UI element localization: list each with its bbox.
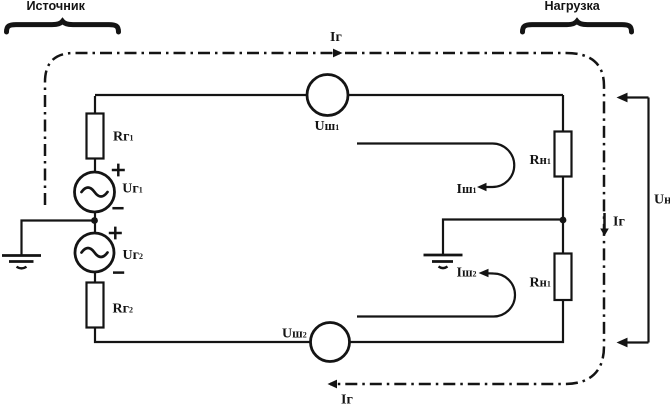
arrow Iг top (right-pointing) — [333, 49, 343, 58]
sine symbol Uг1 — [82, 188, 108, 197]
wire Uг1 to Uг2 through node — [94, 212, 96, 234]
svg-text:Источник: Источник — [27, 0, 86, 13]
source Uг1 — [75, 172, 115, 212]
wire to middle ground — [443, 220, 563, 255]
arrow Iш1 (left-pointing) — [477, 183, 487, 191]
resistor Rн1 upper — [555, 132, 572, 177]
minus sign of Uг2 — [113, 271, 124, 274]
brace under Нагрузка — [523, 21, 632, 32]
wire Iш2 loop indicator — [357, 273, 515, 316]
wire top right — [348, 95, 563, 132]
wire Rн1 upper to node — [562, 177, 564, 254]
resistor Rг1 — [87, 114, 104, 159]
sine symbol Uг2 — [82, 248, 108, 257]
plus sign of Uг1 — [112, 164, 125, 177]
voltmeter Uш2 — [311, 323, 350, 362]
svg-text:Iг: Iг — [341, 393, 353, 404]
wire Iш1 loop indicator — [357, 144, 514, 188]
minus sign of Uг1 — [112, 207, 123, 210]
arrow Uн top (left-pointing) — [617, 93, 628, 103]
wire bottom left — [94, 341, 311, 343]
svg-text:Uн: Uн — [654, 193, 670, 208]
svg-text:Нагрузка: Нагрузка — [545, 0, 601, 13]
arrow Uн bottom (left-pointing) — [617, 338, 628, 348]
ground left — [2, 256, 41, 269]
node B (junction of load resistors and ground) — [560, 217, 567, 224]
wire top left (node between Rг1 and Uш1) — [95, 95, 308, 114]
plus sign of Uг2 — [109, 227, 122, 240]
resistor Rн1 lower — [555, 254, 572, 301]
arrow Iг right side (down-pointing with shaft) — [600, 213, 609, 236]
ground middle — [424, 255, 463, 268]
wire Rн1 lower to bottom — [562, 300, 564, 343]
wire Rг2 to bottom — [94, 328, 96, 344]
wire Uн measurement bracket — [624, 98, 649, 343]
source Uг2 — [75, 233, 114, 272]
brace under Источник — [7, 21, 119, 32]
wire to left ground — [22, 221, 95, 255]
node A (junction of sources and ground) — [91, 217, 98, 224]
wire Rг1 to Uг1 — [94, 159, 96, 173]
wire dash-dot current loop Iг — [45, 53, 604, 384]
voltmeter Uш1 — [307, 75, 348, 116]
arrow Iш2 (left-pointing) — [479, 269, 489, 277]
arrow Iг bottom (left-pointing) — [328, 380, 338, 389]
wire bottom right — [350, 341, 565, 343]
wire Uг2 to Rг2 — [94, 272, 96, 283]
svg-text:Iг: Iг — [613, 215, 625, 230]
svg-text:Iг: Iг — [330, 30, 342, 45]
resistor Rг2 — [87, 283, 104, 328]
